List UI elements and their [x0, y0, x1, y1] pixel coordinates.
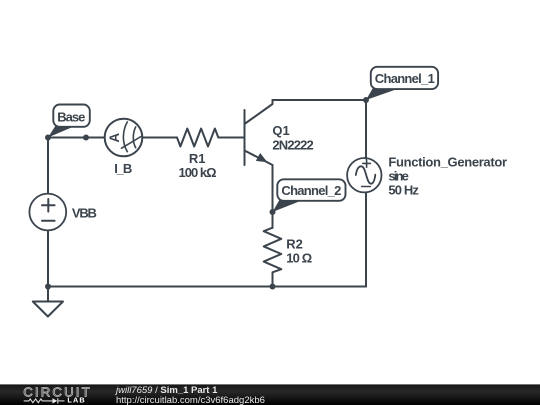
svg-text:50 Hz: 50 Hz [388, 182, 419, 197]
svg-text:http://circuitlab.com/c3v6f6ad: http://circuitlab.com/c3v6f6adg2kb6 [116, 395, 265, 405]
wire node to function generator top [365, 100, 367, 159]
resistor R2 [264, 228, 282, 287]
svg-text:Function_Generator: Function_Generator [388, 154, 507, 169]
flag Base [48, 105, 90, 138]
transistor Q1 [245, 100, 273, 165]
svg-text:A: A [107, 133, 122, 143]
wire node A down to VBB [47, 138, 49, 194]
wire VBB to ground rail [47, 231, 49, 287]
ammeter I_B [105, 119, 143, 157]
wire emitter down to node Channel_2 [272, 165, 274, 212]
svg-text:Q1: Q1 [272, 123, 289, 138]
svg-text:R2: R2 [286, 237, 303, 252]
svg-text:Channel_2: Channel_2 [281, 183, 341, 198]
wire rail to ground symbol [47, 287, 49, 302]
wire ammeter to R1 [143, 137, 178, 139]
svg-text:Base: Base [57, 110, 85, 125]
footer bar [0, 384, 540, 405]
svg-text:10 Ω: 10 Ω [286, 251, 312, 266]
footer attribution text [114, 385, 265, 405]
svg-text:I_B: I_B [114, 161, 132, 176]
CircuitLab logo [23, 385, 90, 405]
flag Channel_2 [273, 179, 346, 212]
svg-text:sine: sine [388, 168, 409, 183]
junction VBB rail [45, 284, 51, 290]
voltage source VBB [29, 194, 66, 231]
ground [33, 302, 63, 317]
junction node A (Base) [45, 135, 51, 141]
svg-text:LAB: LAB [67, 396, 85, 405]
junction node Channel_1 [363, 97, 369, 103]
wire node A to ammeter [48, 137, 105, 139]
junction R2 bottom on rail [270, 284, 276, 290]
resistor R1 [177, 129, 245, 147]
svg-text:jwill7659 / Sim_1 Part 1: jwill7659 / Sim_1 Part 1 [114, 385, 218, 396]
svg-text:100 kΩ: 100 kΩ [179, 165, 217, 180]
wire node to R2 [272, 212, 274, 228]
junction node Channel_2 [270, 209, 276, 215]
junction dot left of ammeter [83, 135, 89, 141]
wire function generator to bottom rail [365, 194, 367, 287]
wire bottom rail [48, 286, 366, 288]
flag Channel_1 [366, 67, 438, 100]
svg-text:2N2222: 2N2222 [272, 138, 313, 153]
svg-text:VBB: VBB [72, 206, 97, 221]
svg-text:Channel_1: Channel_1 [375, 71, 435, 86]
wire collector to node Channel_1 [273, 99, 367, 101]
function generator V1 [347, 158, 381, 192]
